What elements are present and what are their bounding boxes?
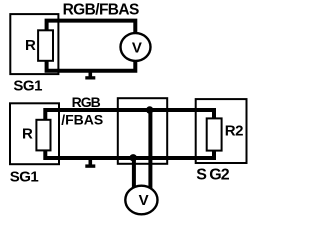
wire top loop lower: resistor bottom to voltmeter bottom <box>47 60 136 71</box>
svg-text:R: R <box>25 37 36 54</box>
wire top loop upper: resistor top to voltmeter top <box>47 21 136 33</box>
svg-text:S G2: S G2 <box>196 167 230 184</box>
wire bottom loop lower: R bottom to R2 bottom <box>45 150 214 158</box>
ground (top circuit) <box>89 72 93 77</box>
junction dot on bottom rail <box>130 154 137 161</box>
svg-text:V: V <box>132 40 142 57</box>
junction dot on top rail <box>146 106 153 113</box>
box SG1 (bottom signal generator) <box>10 103 59 164</box>
resistor R2 <box>207 118 222 150</box>
wire bottom loop upper: R top to R2 top <box>45 110 214 121</box>
svg-text:RGB/FBAS: RGB/FBAS <box>63 2 139 19</box>
svg-text:SG1: SG1 <box>13 77 42 94</box>
svg-text:/FBAS: /FBAS <box>61 111 103 127</box>
svg-text:R2: R2 <box>225 122 243 139</box>
wire: top-rail junction down to voltmeter <box>148 110 152 189</box>
box SG1 (top signal generator) <box>10 14 58 74</box>
measurement box (middle) <box>118 98 167 164</box>
svg-text:V: V <box>139 192 149 209</box>
resistor R (bottom left) <box>36 120 50 151</box>
svg-text:RGB: RGB <box>72 94 101 110</box>
voltmeter V2 circle <box>125 186 157 215</box>
ground (bottom circuit) <box>89 160 93 165</box>
resistor R (top) <box>38 30 53 61</box>
svg-text:R: R <box>22 125 33 142</box>
svg-text:SG1: SG1 <box>10 168 39 185</box>
wire: bottom-rail junction down to voltmeter <box>132 158 136 189</box>
voltmeter V1 circle <box>121 33 151 61</box>
box SG2 (right) <box>196 99 247 163</box>
